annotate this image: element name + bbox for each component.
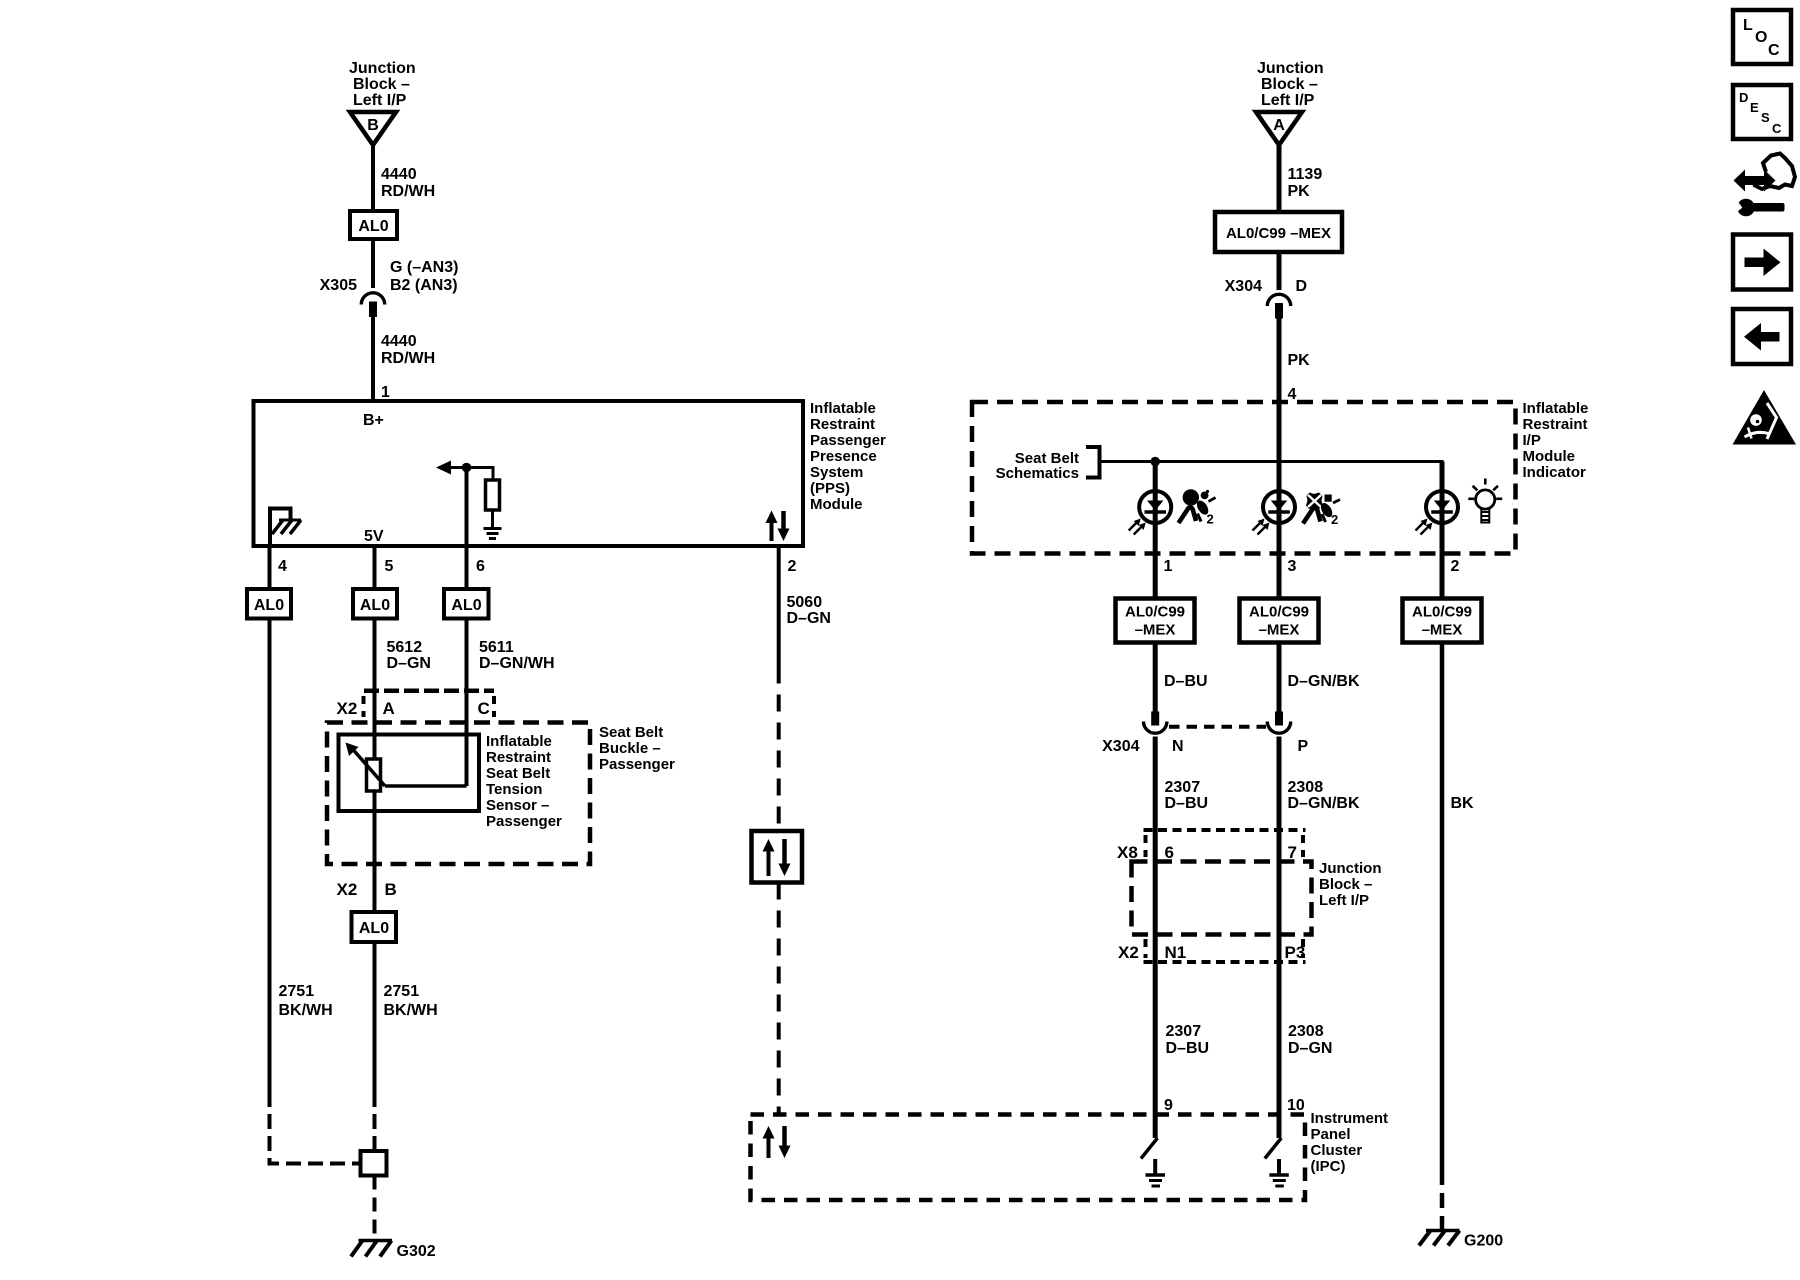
node A: Junction Block - Left I/P label [1257,60,1324,109]
svg-text:6: 6 [476,558,485,575]
svg-text:Inflatable: Inflatable [1523,400,1589,417]
wire seat-belt-schematics bus [1100,462,1443,492]
wire 2308 D-GN/BK (X304 to X8) [1277,737,1282,1115]
value label 2751 BK/WH (left) [279,983,333,1019]
svg-text:BK/WH: BK/WH [279,1002,333,1019]
svg-text:X2: X2 [1118,943,1139,962]
connector X305 symbol [361,293,384,317]
svg-text:Module: Module [1523,448,1576,465]
svg-text:Left I/P: Left I/P [353,92,407,109]
junction block triangle A [1256,112,1302,145]
wire pin4-to-AL0 [268,546,272,589]
svg-text:G302: G302 [397,1243,436,1260]
svg-text:9: 9 [1164,1097,1173,1114]
serial data arrows (IPC) [763,1126,791,1158]
wire pin6-to-AL0 [465,546,469,589]
svg-text:C: C [1772,121,1782,136]
value label 2308 D-GN (lower) [1288,1023,1332,1057]
value label 2308 D-GN/BK [1288,779,1360,812]
icon button DESC [1733,85,1791,139]
svg-text:AL0: AL0 [358,218,388,235]
Junction Block - Left I/P dashed box [1132,862,1312,935]
svg-text:Tension: Tension [486,781,542,798]
svg-text:PK: PK [1288,352,1311,369]
IPC internal ground (pin 9) [1146,1159,1166,1186]
svg-text:5: 5 [385,558,394,575]
svg-text:Restraint: Restraint [810,416,875,433]
internal ground (chassis) at pin 4 [270,509,301,547]
value label 5060 D-GN [787,594,831,627]
svg-text:A: A [1273,117,1285,134]
svg-text:7: 7 [1288,843,1297,862]
connector X8 strip [1144,830,1306,857]
svg-text:O: O [1755,29,1767,46]
svg-text:C: C [478,699,490,718]
svg-text:Passenger: Passenger [486,813,562,830]
svg-text:10: 10 [1287,1097,1305,1114]
svg-text:L: L [1743,17,1753,34]
fuse AL0 (pin 6) [444,589,489,619]
ground G302 symbol [351,1241,392,1257]
wire D-GN/BK (fuse to X304-P) [1277,643,1282,713]
svg-text:AL0: AL0 [451,597,481,614]
svg-text:System: System [810,464,863,481]
IPC name text [1311,1110,1389,1175]
wire X304-to-indicator pin4 [1277,319,1282,403]
svg-text:2: 2 [1331,512,1338,527]
value label 2307 D-BU (lower) [1166,1023,1210,1057]
wire 5611 (pin6-to-sensor) [465,619,469,735]
wire 2307 D-BU (X304 to X8) [1153,737,1158,1115]
fuse AL0/C99 -MEX (pin 2) [1403,599,1482,643]
svg-text:Junction: Junction [1257,60,1324,77]
svg-text:–MEX: –MEX [1422,622,1463,639]
resistor R1 (internal pull-up) [486,480,500,510]
junction block triangle B [350,112,396,145]
wire LED3 branch [1440,462,1445,599]
svg-text:A: A [383,699,395,718]
wire A-to-fuse [1277,145,1282,212]
svg-text:C: C [1768,42,1780,59]
svg-text:Buckle –: Buckle – [599,740,661,757]
svg-text:Restraint: Restraint [1523,416,1588,433]
svg-text:X304: X304 [1225,278,1262,295]
wire LED1 branch [1153,462,1158,599]
svg-text:G (–AN3): G (–AN3) [390,259,458,276]
svg-text:5611: 5611 [479,639,514,656]
module U1 name text [810,400,886,513]
svg-text:B: B [385,880,397,899]
wire AL0-to-X305 [371,239,375,288]
svg-text:D–GN: D–GN [787,610,831,627]
sensor box (Inflatable Restraint Seat Belt Tension Sensor) [339,735,480,812]
svg-text:2308: 2308 [1288,1023,1324,1040]
icon airbag caution triangle [1733,390,1797,445]
svg-text:Block –: Block – [1261,76,1318,93]
svg-text:Block –: Block – [353,76,410,93]
off-page bracket [1086,445,1100,480]
svg-text:–MEX: –MEX [1259,622,1300,639]
IPC internal ground (pin 10) [1269,1159,1289,1186]
svg-text:3: 3 [1288,558,1297,575]
wire D-BU (fuse to X304-N) [1153,643,1158,713]
splice node (square) [361,1151,387,1176]
pin label G (-AN3) B2 (AN3) [390,259,458,294]
svg-text:2307: 2307 [1165,779,1201,796]
internal wire pin 6 with junction [436,461,493,547]
value label 5612 D-GN [387,639,431,672]
svg-text:6: 6 [1165,843,1174,862]
svg-text:Left I/P: Left I/P [1319,892,1369,909]
wire pin5-to-AL0 [373,546,377,589]
fuse AL0/C99 -MEX (top) [1215,212,1342,252]
svg-text:4440: 4440 [381,166,417,183]
fuse AL0 (below sensor) [352,912,397,942]
icon button forward arrow [1733,235,1791,290]
fuse AL0/C99 -MEX (pin 3) [1240,599,1319,643]
svg-text:N1: N1 [1165,943,1187,962]
Inflatable Restraint I/P Module Indicator dashed box [972,402,1516,554]
svg-text:2: 2 [1207,512,1214,527]
svg-text:D–GN/BK: D–GN/BK [1288,795,1360,812]
svg-text:D–GN/BK: D–GN/BK [1288,673,1360,690]
svg-text:Module: Module [810,496,863,513]
Instrument Panel Cluster (IPC) dashed box [751,1115,1306,1201]
icon wrench with arrows (service) [1730,154,1795,217]
wire 2751 BK/WH (pin4 branch, solid) [268,619,272,1093]
svg-text:Seat Belt: Seat Belt [486,765,550,782]
svg-text:BK/WH: BK/WH [384,1002,438,1019]
svg-text:2: 2 [788,558,797,575]
IPC internal switch pin 9 [1141,1115,1158,1159]
wire X305-to-PPS pin1 [371,317,375,401]
dashed wire 5060 upper [777,667,781,832]
svg-text:Instrument: Instrument [1311,1110,1389,1127]
svg-text:Presence: Presence [810,448,877,465]
Seat Belt Buckle - Passenger dashed box [327,723,590,865]
svg-text:B: B [367,117,379,134]
svg-text:Passenger: Passenger [599,756,675,773]
dashed wire 2751 to splice [373,1092,377,1151]
svg-text:Panel: Panel [1311,1126,1351,1143]
svg-text:B+: B+ [363,412,384,429]
svg-text:RD/WH: RD/WH [381,350,435,367]
svg-text:X305: X305 [320,277,357,294]
junction block name text [1319,860,1382,909]
icon: passenger with airbag (on) [1179,489,1216,523]
svg-text:X2: X2 [337,699,358,718]
svg-text:BK: BK [1451,795,1475,812]
module U1: Inflatable Restraint Passenger Presence System (PPS) Module box [254,401,804,546]
svg-text:Junction: Junction [1319,860,1382,877]
svg-text:4: 4 [1288,386,1297,403]
fuse AL0 (top left) [350,211,397,239]
node B: Junction Block - Left I/P label [349,60,416,109]
fuse AL0/C99 -MEX (pin 1) [1116,599,1195,643]
svg-text:(IPC): (IPC) [1311,1158,1346,1175]
svg-text:Passenger: Passenger [810,432,886,449]
icon button back arrow [1733,309,1791,364]
svg-text:1139: 1139 [1288,166,1323,183]
ground G200 symbol [1419,1231,1460,1246]
svg-text:Junction: Junction [349,60,416,77]
dashed wire pin4 branch to splice [270,1092,361,1164]
indicator module name text [1523,400,1589,481]
svg-text:Restraint: Restraint [486,749,551,766]
connector X2 strip (right) [1144,939,1306,962]
wire 5612 (pin5-to-sensor) [373,619,377,761]
IPC internal switch pin 10 [1265,1115,1282,1159]
svg-text:D–GN: D–GN [1288,1040,1332,1057]
svg-text:5060: 5060 [787,594,823,611]
dashed wire BK to G200 [1440,1170,1445,1229]
dashed wire 5060 lower to IPC [777,883,781,1115]
dashed wire splice to G302 [373,1176,377,1240]
svg-text:G200: G200 [1464,1233,1503,1250]
LED1 (passenger airbag on indicator) [1129,491,1172,535]
svg-text:D–GN/WH: D–GN/WH [479,655,555,672]
svg-text:1: 1 [381,384,390,401]
wire BK (fuse to G200, solid part) [1440,643,1445,1171]
junction node (dot) [1150,457,1160,467]
value label 1139 PK [1288,166,1323,200]
svg-text:Cluster: Cluster [1311,1142,1363,1159]
svg-text:P: P [1298,738,1309,755]
svg-text:Inflatable: Inflatable [810,400,876,417]
svg-text:AL0/C99: AL0/C99 [1249,604,1309,621]
svg-text:Indicator: Indicator [1523,464,1587,481]
value label 4440 RD/WH (lower) [381,333,435,367]
wire B-to-AL0 [371,145,375,211]
connector X2 strip (A / C) [364,691,495,717]
svg-text:I/P: I/P [1523,432,1541,449]
wire LED2 branch (through) [1277,402,1282,599]
svg-text:(PPS): (PPS) [810,480,850,497]
svg-text:D: D [1739,90,1748,105]
svg-text:D: D [1296,278,1308,295]
svg-text:AL0: AL0 [360,597,390,614]
svg-text:RD/WH: RD/WH [381,183,435,200]
connector X304-P symbol [1267,712,1290,734]
value label 4440 RD/WH (upper) [381,166,435,200]
svg-text:2751: 2751 [279,983,315,1000]
svg-text:Seat Belt: Seat Belt [599,724,663,741]
net label Seat Belt Schematics [996,450,1079,482]
value label 2751 BK/WH (right) [384,983,438,1019]
value label 5611 D-GN/WH [479,639,555,672]
svg-text:Schematics: Schematics [996,465,1079,482]
fuse AL0 (pin 5) [353,589,397,619]
svg-text:B2 (AN3): B2 (AN3) [390,277,458,294]
value label 2307 D-BU (upper) [1165,779,1209,812]
icon: light bulb [1468,479,1502,523]
svg-text:N: N [1172,738,1184,755]
wire 5060 D-GN (solid part from pin 2) [777,546,781,667]
serial data arrows box [752,831,803,883]
sensor name text [486,733,562,830]
svg-text:4: 4 [278,558,287,575]
svg-text:4440: 4440 [381,333,417,350]
svg-text:D–BU: D–BU [1164,673,1208,690]
svg-text:2751: 2751 [384,983,420,1000]
svg-text:–MEX: –MEX [1135,622,1176,639]
connector X304-N symbol [1144,712,1167,734]
svg-text:S: S [1761,110,1770,125]
svg-text:X8: X8 [1117,843,1138,862]
icon: passenger with airbag crossed (off) [1303,493,1340,524]
svg-text:X304: X304 [1102,738,1139,755]
svg-text:E: E [1750,100,1759,115]
wire below AL0 (2751) [373,942,377,1092]
svg-text:AL0/C99: AL0/C99 [1412,604,1472,621]
svg-text:P3: P3 [1285,943,1306,962]
svg-text:PK: PK [1288,183,1311,200]
svg-text:D–GN: D–GN [387,655,431,672]
dashed connector tie line X304 [1169,725,1266,729]
internal ground (earth) below resistor [484,510,502,539]
svg-text:X2: X2 [337,880,358,899]
svg-text:5V: 5V [364,528,384,545]
wire 5612 through sensor [373,735,377,913]
LED2 (passenger airbag off indicator) [1253,491,1296,535]
svg-text:AL0/C99 –MEX: AL0/C99 –MEX [1226,225,1331,242]
svg-text:2: 2 [1451,558,1460,575]
svg-text:AL0: AL0 [254,597,284,614]
svg-text:Block –: Block – [1319,876,1372,893]
svg-text:2308: 2308 [1288,779,1324,796]
fuse AL0 (pin 4) [247,589,291,619]
svg-text:AL0: AL0 [359,920,389,937]
svg-text:2307: 2307 [1166,1023,1202,1040]
bidirectional signal arrows (PPS pin 2) [766,511,790,542]
svg-text:D–BU: D–BU [1166,1040,1210,1057]
connector X304-D symbol [1267,294,1290,318]
wire 5611 into sensor (wiper) [385,735,467,787]
wire fuse-to-X304 [1277,252,1282,290]
svg-text:AL0/C99: AL0/C99 [1125,604,1185,621]
variable resistor (potentiometer) [346,743,386,792]
svg-text:5612: 5612 [387,639,423,656]
Seat Belt Buckle - Passenger label [599,724,675,773]
LED3 (fasten seat belt bulb indicator) [1416,491,1459,535]
svg-text:Left I/P: Left I/P [1261,92,1315,109]
svg-text:1: 1 [1164,558,1173,575]
icon button LOC [1733,10,1791,64]
svg-text:D–BU: D–BU [1165,795,1209,812]
svg-text:Inflatable: Inflatable [486,733,552,750]
svg-text:Sensor –: Sensor – [486,797,549,814]
